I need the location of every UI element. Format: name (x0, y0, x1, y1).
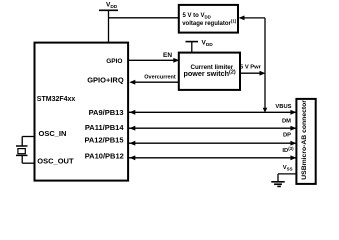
svg-text:DP: DP (283, 133, 291, 139)
svg-text:VDD: VDD (202, 40, 214, 49)
svg-text:STM32F4xx: STM32F4xx (37, 96, 76, 103)
svg-text:DM: DM (282, 119, 291, 125)
svg-text:USBmicro-AB connector: USBmicro-AB connector (301, 100, 308, 180)
svg-text:PA11/PB14: PA11/PB14 (85, 123, 124, 132)
svg-text:ID(3): ID(3) (282, 146, 294, 154)
svg-text:PA9/PB13: PA9/PB13 (89, 108, 124, 117)
svg-text:GPIO+IRQ: GPIO+IRQ (87, 76, 124, 85)
svg-text:5 V Pwr: 5 V Pwr (240, 65, 262, 71)
svg-text:OSC_IN: OSC_IN (39, 129, 67, 138)
svg-text:VBUS: VBUS (275, 104, 291, 110)
svg-text:VSS: VSS (283, 165, 293, 172)
svg-text:Overcurrent: Overcurrent (144, 75, 176, 81)
svg-text:EN: EN (163, 52, 172, 59)
svg-text:5 V to VDD: 5 V to VDD (183, 13, 211, 20)
svg-text:VDD: VDD (106, 1, 118, 10)
svg-text:power switch(2): power switch(2) (184, 69, 236, 78)
svg-text:PA12/PB15: PA12/PB15 (84, 135, 123, 144)
svg-text:PA10/PB12: PA10/PB12 (85, 152, 124, 161)
svg-text:GPIO: GPIO (106, 58, 122, 65)
svg-text:OSC_OUT: OSC_OUT (37, 156, 74, 165)
